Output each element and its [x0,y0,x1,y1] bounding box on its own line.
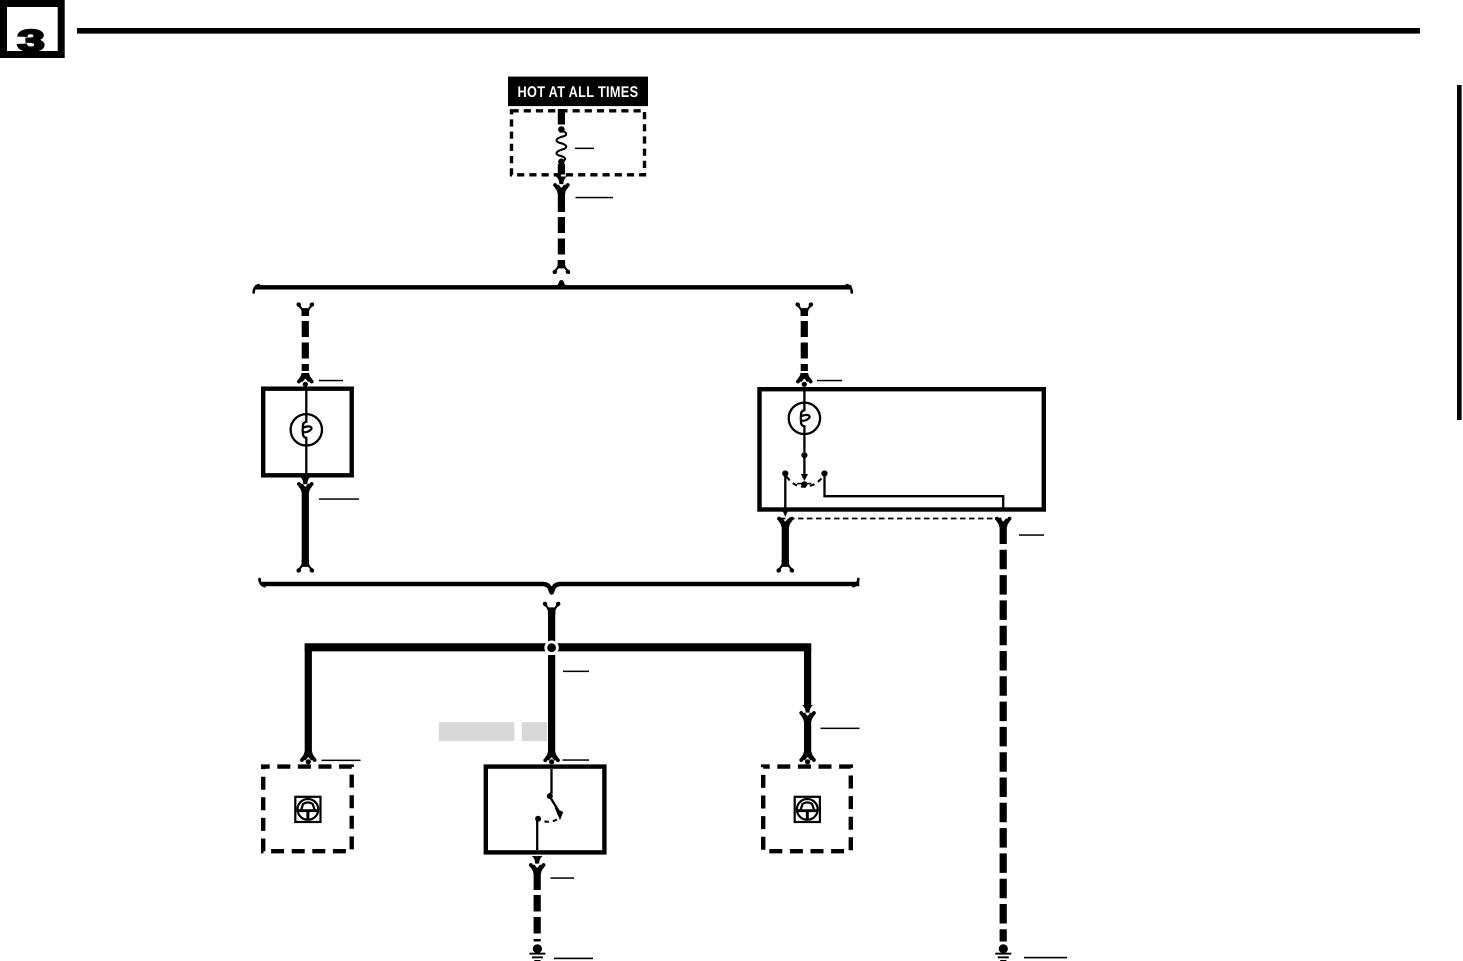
label line switch box top [563,759,590,761]
fuse element [557,109,567,175]
right box: lamp and switch unit [760,389,1044,509]
switch inside middle box [535,769,563,850]
wire: bus2 to junction (thick) [548,609,555,643]
right edge rule [1457,85,1462,420]
wire: bus1 to right box (thick dashed) [796,303,813,386]
right socket dashed box [763,767,851,852]
wire: junction to switch box [543,655,560,764]
fuse box (dashed) [512,111,645,175]
ground symbol (switch box wire) [529,944,545,961]
label line below left lamp [319,498,359,500]
label line below switch box [551,877,575,879]
HOT AT ALL TIMES banner [508,77,648,107]
label line below junction [563,671,589,673]
connector horns on left exit of right box [777,517,794,528]
label line at left lamp input [319,380,343,382]
wire: switch left contact to box bottom [783,477,788,518]
wire: right box to bus 2 (thick solid) [778,526,794,572]
top horizontal rule [77,28,1420,34]
left lamp box [263,389,352,476]
ground (right wire) [995,944,1011,961]
connector below left lamp [297,477,314,493]
label line at right box input [817,380,842,382]
wire: right box to ground (thick dashed) [1000,525,1007,942]
switch return path inside right box [825,477,1004,512]
bulb in right box [789,389,820,452]
gray redaction block 2 [522,722,547,741]
connector below bus 2 [544,603,560,616]
fuse label line [575,148,594,150]
inline tie (thin dashed) below right box [780,518,1003,520]
svg-text:3: 3 [17,24,44,57]
wire: switch box to ground (thick, then dashed) [534,873,541,942]
connector below switch box [529,856,546,874]
gray redaction block 1 [439,722,514,741]
ground label line (middle) [554,958,593,960]
label line right exit [1019,534,1044,536]
connector label line [576,197,614,199]
connector below fuse (male into female) [553,177,570,194]
splice bus 2 (brace with center point down) [260,579,860,593]
junction node (dot in white ring) [544,641,558,655]
socket symbol right [795,797,820,822]
wire: right drop into right socket box [799,721,816,764]
label line left socket [322,760,361,762]
connector on right drop [799,705,816,722]
bulb in left lamp box [291,388,322,475]
socket symbol left [295,797,320,822]
page number 3 [17,24,44,57]
left socket dashed box [263,767,352,852]
ground label line (right) [1024,957,1067,959]
wire: left lamp to bus 2 (thick solid) [298,492,314,572]
connector into left socket box [300,752,317,765]
distribution wire (horizontal with two drops) [305,643,812,753]
svg-text:HOT AT ALL TIMES: HOT AT ALL TIMES [518,84,639,102]
page tab badge square [4,4,62,55]
connector horns on right exit of right box [995,517,1012,528]
splice bus 1 (brace with center point up) [254,281,852,292]
switch in right box [782,455,827,487]
switch box (middle) [486,767,605,853]
wire: bus1 to left lamp (thick dashed) [297,303,314,386]
label line right drop [821,728,860,730]
node dot below bulb [801,452,807,458]
wire: fuse output to splice bus 1 (thick dashed) [554,193,570,273]
